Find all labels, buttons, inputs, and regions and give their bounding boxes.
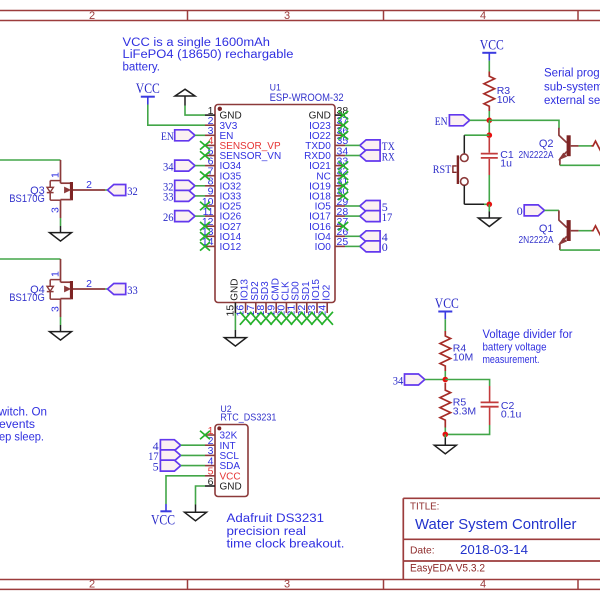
net flag 0 at Q1 collector	[517, 204, 545, 218]
switch RST (pushbutton)	[453, 135, 484, 204]
power flag VCC (below U2)	[151, 504, 175, 528]
node EN junction	[487, 118, 493, 124]
wire flag 33 to U1 pin9	[195, 195, 205, 197]
wire C2 bottom to node	[445, 425, 489, 434]
U1 left pins 1-14 (stubs, numbers, names)	[202, 105, 281, 253]
ground (up arrow) at U1 pin 1	[175, 89, 195, 105]
svg-text:external serial: external serial	[544, 95, 600, 107]
wire divider node to C2 top	[445, 380, 489, 387]
svg-text:3: 3	[50, 207, 62, 213]
svg-text:4: 4	[480, 579, 486, 591]
resistor R5	[440, 383, 451, 428]
net flag RX at U1 pin34	[360, 149, 395, 163]
svg-text:ESP-WROOM-32: ESP-WROOM-32	[270, 92, 344, 104]
svg-text:RST: RST	[433, 162, 452, 176]
ground at Q3 source	[60, 226, 62, 233]
wire flag 0 to U1 pin25	[345, 245, 360, 247]
wire Q3 gate to flag	[105, 189, 108, 191]
svg-text:IO12: IO12	[220, 242, 242, 253]
wire flag 26 to U1 pin11	[195, 215, 205, 217]
U1 right pins 25-38 (stubs, numbers, names)	[304, 105, 348, 253]
svg-text:measurement.: measurement.	[483, 354, 540, 366]
resistor R3	[484, 72, 495, 112]
wire U2 GND pin6	[196, 486, 206, 505]
net flag 33 at U1 pin9	[163, 190, 195, 204]
net flag TX at U1 pin35	[360, 139, 395, 153]
wire EN flag to U1 pin3	[195, 134, 205, 136]
wire flag 34 to U1 pin6	[195, 165, 205, 167]
net flag 32 at Q3 gate	[108, 184, 138, 198]
U1 reference label	[270, 82, 344, 104]
svg-text:5: 5	[153, 459, 159, 473]
svg-text:2: 2	[86, 179, 92, 191]
wire Q3 source to ground	[60, 218, 62, 226]
net flag 17 at U2 pin3	[148, 449, 181, 463]
transistor Q3 BS170G	[47, 160, 105, 218]
svg-text:10M: 10M	[453, 352, 473, 364]
wire VCC to U1 pin2 3V3	[148, 105, 205, 126]
svg-text:10K: 10K	[497, 94, 516, 106]
svg-text:Adafruit DS3231: Adafruit DS3231	[227, 513, 325, 525]
svg-text:precision real: precision real	[227, 526, 307, 538]
power flag VCC (above R3)	[480, 37, 504, 60]
svg-text:RX: RX	[382, 149, 395, 163]
no-connect X marks on U1 bottom pins	[240, 312, 333, 325]
svg-text:witch. On: witch. On	[0, 407, 47, 419]
svg-text:RTC_DS3231: RTC_DS3231	[220, 412, 276, 424]
power flag VCC (above R4)	[435, 296, 459, 319]
svg-text:IO0: IO0	[315, 242, 332, 253]
node ground junction below C1	[487, 202, 493, 208]
wire EN node down	[488, 120, 490, 135]
wire junction to RST switch	[464, 134, 489, 136]
svg-text:VCC is a single 1600mAh: VCC is a single 1600mAh	[123, 37, 271, 49]
svg-text:0: 0	[382, 240, 388, 254]
note: switch annotation (clipped at left edge)	[0, 407, 47, 444]
svg-text:EN: EN	[435, 114, 448, 128]
svg-text:1: 1	[50, 172, 62, 178]
wire U2 VCC pin5	[166, 476, 205, 504]
U2 pins 1-6 (stubs, numbers, names)	[205, 425, 242, 493]
wire left edge to Q4 drain	[0, 258, 61, 260]
wire U1 pin15 to ground	[234, 313, 236, 330]
svg-text:EasyEDA V5.3.2: EasyEDA V5.3.2	[410, 563, 485, 575]
wire flag RX to U1 pin34	[345, 155, 360, 157]
label R5 3.3M	[453, 396, 476, 417]
svg-text:33: 33	[127, 283, 138, 297]
wire EN flag to node	[470, 119, 490, 121]
resistor at Q1 base (clipped)	[592, 226, 600, 236]
svg-text:0: 0	[517, 204, 523, 218]
U1 bottom pins 15-24 (stubs, numbers, names)	[225, 278, 333, 316]
svg-text:6: 6	[208, 476, 214, 488]
label Q3 BS170G	[9, 185, 45, 205]
net flag 5 at U1 pin29	[360, 200, 388, 214]
wire R4 to divider node	[444, 371, 446, 380]
svg-text:1u: 1u	[500, 157, 512, 169]
svg-text:26: 26	[163, 210, 174, 224]
svg-text:2: 2	[89, 10, 95, 22]
svg-text:VCC: VCC	[136, 81, 160, 97]
svg-text:events: events	[0, 419, 35, 431]
net flag 34 at divider node	[393, 373, 425, 387]
wire VCC to R3	[488, 61, 490, 72]
net flag 5 at U2 pin4	[153, 459, 181, 473]
svg-text:24: 24	[316, 305, 328, 317]
net flag 4 at U1 pin26	[360, 230, 388, 244]
ground at U1 pin15	[234, 330, 236, 338]
wire flag 32 to U1 pin8	[195, 185, 205, 187]
svg-text:33: 33	[163, 190, 174, 204]
transistor Q2 2N2222A	[559, 128, 579, 166]
note: serial programmer annotation	[544, 67, 600, 107]
svg-text:VCC: VCC	[435, 296, 459, 312]
svg-text:3: 3	[284, 10, 290, 22]
svg-text:Serial programming: Serial programming	[544, 67, 600, 79]
svg-text:EN: EN	[161, 129, 174, 143]
wire flag 0 to Q1 collector	[545, 209, 559, 211]
wire Q2 base to resistor	[579, 145, 592, 147]
wire VCC to R4	[444, 319, 446, 331]
svg-text:sub-system. Via: sub-system. Via	[544, 81, 600, 93]
wire flag 5 to U2 pin4	[181, 465, 205, 467]
svg-text:2: 2	[89, 579, 95, 591]
svg-text:BS170G: BS170G	[9, 193, 45, 205]
svg-text:17: 17	[382, 210, 393, 224]
wire flag 34 to node	[425, 379, 446, 381]
svg-text:VCC: VCC	[151, 512, 175, 528]
svg-text:3: 3	[50, 306, 62, 312]
svg-text:3: 3	[284, 579, 290, 591]
svg-text:2: 2	[86, 278, 92, 290]
svg-text:Water System Controller: Water System Controller	[415, 516, 577, 533]
ground below U2	[195, 505, 197, 513]
wire flag 5 to U1 pin29	[345, 205, 360, 207]
net flag 17 at U1 pin28	[360, 210, 393, 224]
wire U1 pin1 to ground arrow	[185, 106, 205, 116]
net flag EN at U1 pin3	[161, 129, 195, 143]
ground below R5	[444, 438, 446, 446]
svg-text:4: 4	[480, 10, 486, 22]
node C1/RST junction	[487, 132, 493, 138]
no-connect X at U2 pin1	[200, 431, 210, 440]
net flag 26 at U1 pin11	[163, 210, 195, 224]
label R3 10K	[497, 85, 516, 106]
wire EN node to Q2 collector	[489, 120, 559, 128]
svg-text:GND: GND	[220, 482, 242, 493]
U2 reference label	[220, 404, 276, 424]
svg-text:2018-03-14: 2018-03-14	[460, 542, 528, 557]
capacitor C1	[481, 137, 498, 175]
net flag 32 at U1 pin8	[163, 180, 195, 194]
svg-text:2N2222A: 2N2222A	[519, 149, 554, 161]
resistor R4	[440, 331, 451, 371]
net flag 33 at Q4 gate	[108, 283, 138, 297]
node divider ground junction	[443, 432, 449, 438]
svg-text:32: 32	[127, 184, 138, 198]
svg-text:U1: U1	[270, 82, 281, 92]
label Q1 2N2222A	[519, 223, 554, 246]
label R4 10M	[453, 343, 473, 364]
svg-text:battery.: battery.	[123, 61, 161, 73]
wire RST bottom to junction	[484, 203, 489, 205]
svg-text:BS170G: BS170G	[9, 292, 45, 304]
IC U2 RTC_DS3231 body	[215, 425, 248, 497]
IC U1 ESP-WROOM-32 module body	[215, 105, 335, 303]
svg-text:1: 1	[50, 271, 62, 277]
svg-text:3.3M: 3.3M	[453, 405, 476, 417]
wire Q2 emitter out	[560, 164, 600, 166]
svg-text:TITLE:: TITLE:	[410, 502, 439, 513]
wire Q1 collector vertical	[558, 210, 560, 213]
svg-text:0.1u: 0.1u	[501, 409, 522, 421]
label Q4 BS170G	[9, 284, 45, 304]
label C2 0.1u	[501, 400, 522, 421]
svg-text:ep sleep.: ep sleep.	[0, 432, 44, 444]
note: voltage divider annotation	[483, 329, 573, 366]
wire Q1 emitter out	[560, 249, 600, 251]
wire Q4 source to ground	[60, 317, 62, 325]
wire junction to ground	[488, 204, 490, 211]
svg-text:Date:: Date:	[410, 546, 435, 557]
wire Q1 base to resistor	[579, 230, 592, 232]
no-connect X marks on U1 left pins	[200, 141, 210, 251]
capacitor C2	[481, 386, 499, 425]
svg-text:LiFePO4 (18650) rechargable: LiFePO4 (18650) rechargable	[123, 49, 294, 61]
label C1 1u	[500, 149, 514, 170]
wire flag 4 to U1 pin26	[345, 235, 360, 237]
svg-text:34: 34	[163, 159, 174, 173]
net flag EN (pullup node)	[435, 114, 470, 128]
wire C1 to ground junction	[488, 175, 490, 204]
label Q2 2N2222A	[519, 138, 554, 161]
svg-text:VCC: VCC	[480, 37, 504, 53]
svg-text:IO2: IO2	[321, 284, 332, 301]
wire R5 to bottom node	[444, 428, 446, 435]
title block	[403, 498, 600, 579]
net flag 4 at U2 pin2	[153, 439, 181, 453]
ground below C1	[488, 212, 490, 219]
svg-text:Voltage divider for: Voltage divider for	[483, 329, 573, 341]
no-connect X marks on U1 right pins	[338, 111, 348, 231]
svg-text:34: 34	[393, 373, 404, 387]
wire flag TX to U1 pin35	[345, 144, 360, 146]
svg-text:battery voltage: battery voltage	[483, 342, 547, 354]
wire Q4 gate to flag	[105, 288, 108, 290]
svg-text:time clock breakout.: time clock breakout.	[227, 539, 345, 551]
ground at Q4 source	[60, 325, 62, 332]
wire left edge to Q3 drain	[0, 159, 61, 161]
note: RTC annotation	[227, 513, 345, 551]
wire flag 4 to U2 pin2	[181, 444, 205, 446]
transistor Q4 BS170G	[47, 259, 105, 317]
svg-text:2N2222A: 2N2222A	[519, 234, 554, 246]
wire R3 to EN node	[488, 111, 490, 120]
power flag VCC (top left)	[136, 81, 160, 105]
transistor Q1 2N2222A	[559, 213, 579, 251]
wire flag 17 to U1 pin28	[345, 215, 360, 217]
net flag 0 at U1 pin25	[360, 240, 388, 254]
node divider junction	[443, 377, 449, 383]
net flag 34 at U1 pin6	[163, 159, 195, 173]
resistor at Q2 base (clipped)	[592, 141, 600, 151]
note: battery annotation	[123, 37, 294, 73]
wire flag 17 to U2 pin3	[181, 454, 205, 456]
wire node to ground	[444, 434, 446, 437]
